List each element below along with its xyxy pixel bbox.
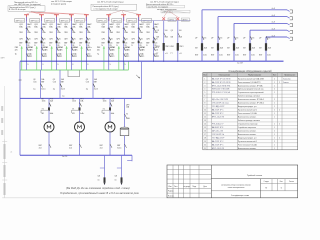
svg-text:ПВ1: ПВ1 [49,32,53,34]
svg-text:d25: d25 [30,49,33,51]
svg-text:9: 9 [204,106,205,108]
svg-text:С25: С25 [27,38,30,40]
svg-text:С16: С16 [33,81,36,83]
svg-text:20: 20 [204,144,206,146]
svg-text:2с: 2с [11,152,13,154]
svg-text:КМ1: КМ1 [156,46,160,48]
svg-text:40А: 40А [268,46,272,49]
svg-text:5х10: 5х10 [251,54,255,56]
svg-text:N: N [131,45,133,47]
svg-text:1: 1 [274,127,275,129]
svg-text:14: 14 [204,124,206,126]
svg-text:нВРУ2: нВРУ2 [169,20,175,22]
svg-text:нов. ВУ 2-2 14-й секции (сущ.): нов. ВУ 2-2 14-й секции (сущ.) [97,1,124,4]
svg-text:С25: С25 [87,38,90,40]
svg-text:d25: d25 [112,49,115,51]
svg-text:нВРУ1-13: нВРУ1-13 [30,20,38,22]
svg-text:Кол: Кол [273,75,276,77]
svg-text:Тр.: Тр. [75,53,78,55]
svg-text:1: 1 [274,113,275,115]
svg-text:2: 2 [204,82,205,84]
svg-text:1016: 1016 [42,101,46,103]
svg-text:N: N [79,45,81,47]
svg-text:нВРУ1-13: нВРУ1-13 [15,20,23,22]
svg-text:В 13-й 14-й секции: В 13-й 14-й секции [9,8,25,11]
svg-text:ВРУ1-13-20 УХ: ВРУ1-13-20 УХ [212,117,225,119]
svg-text:Поз: Поз [203,75,206,77]
svg-text:С63: С63 [267,37,270,39]
svg-text:QF: QF [243,37,246,39]
svg-text:КМ: КМ [227,47,230,49]
svg-text:(Вв Мвб Дч 2Н-нн клеммная пере: (Вв Мвб Дч 2Н-нн клеммная передача след.… [66,186,130,190]
svg-text:18: 18 [204,137,206,139]
svg-text:40А: 40А [220,46,224,49]
svg-text:ПВ1: ПВ1 [79,32,83,34]
svg-text:1ш: 1ш [62,95,65,97]
svg-text:ВВГ: ВВГ [243,54,246,56]
svg-text:2: 2 [279,82,280,84]
svg-text:ВВГ: ВВГ [94,81,97,83]
svg-text:d25: d25 [15,49,18,51]
svg-text:Тр.: Тр. [45,53,48,55]
svg-text:С25: С25 [72,38,75,40]
svg-text:4х-8: 4х-8 [272,22,275,24]
svg-text:Выключатель автомат.: Выключатель автомат. [238,131,257,133]
svg-text:Выключатель автомат. 3Р 80А: Выключатель автомат. 3Р 80А [238,84,263,87]
svg-text:ВВГ: ВВГ [259,54,262,56]
svg-text:Выключатель автомат.: Выключатель автомат. [238,134,257,136]
svg-text:1: 1 [274,134,275,136]
svg-text:N: N [125,64,126,66]
svg-text:ВВГ: ВВГ [34,43,37,45]
svg-text:Выключатель автомат. 3Р 25А С: Выключатель автомат. 3Р 25А С [238,102,265,105]
svg-text:16А: 16А [27,31,31,34]
svg-text:1: 1 [274,117,275,119]
svg-text:2: 2 [274,110,275,112]
svg-text:Тр.: Тр. [30,53,33,55]
svg-text:4х-8: 4х-8 [272,8,275,10]
svg-text:1: 1 [274,144,275,146]
svg-text:16А: 16А [110,31,114,34]
svg-text:5х10: 5х10 [219,54,223,56]
svg-text:Ограничитель перенапряжений: Ограничитель перенапряжений [238,91,264,94]
svg-text:Изм: Изм [169,186,172,188]
svg-text:3: 3 [204,85,205,87]
svg-text:12: 12 [204,117,206,119]
svg-text:ВВГ: ВВГ [211,54,214,56]
svg-text:ЩРн-24з-1 36: ЩРн-24з-1 36 [212,131,223,133]
svg-text:1ш: 1ш [33,88,36,90]
svg-text:1: 1 [274,137,275,139]
svg-text:1ш 10: 1ш 10 [62,156,67,158]
svg-text:автоматика отбор и контроль от: автоматика отбор и контроль отказов [221,184,250,186]
svg-text:ВВГ: ВВГ [195,54,198,56]
svg-text:ПВ1: ПВ1 [116,32,120,34]
svg-text:Питающий кабель ВУ-2 (сущ.): Питающий кабель ВУ-2 (сущ.) [93,5,120,8]
svg-text:4х4: 4х4 [100,147,103,149]
svg-text:ВА 47-29 1Р С16 УХЛ3: ВА 47-29 1Р С16 УХЛ3 [212,77,230,80]
svg-text:QF: QF [211,37,214,39]
svg-text:ВА: ВА [157,36,160,39]
svg-text:Вводно-распредел. уст: Вводно-распредел. уст [238,137,257,139]
svg-text:2: 2 [279,137,280,139]
svg-text:4х-8: 4х-8 [272,15,275,17]
svg-text:Листов: Листов [289,181,294,183]
svg-text:Подп.: Подп. [192,186,197,188]
svg-text:Определения, произведенный нав: Определения, произведенный навес В н.б.д… [60,191,140,195]
svg-text:С63: С63 [251,37,254,39]
svg-text:QF: QF [259,37,262,39]
svg-text:17: 17 [204,134,206,136]
svg-text:С25: С25 [124,38,127,40]
svg-text:Ограничитель перенапр: Ограничитель перенапр [238,124,258,126]
svg-text:РЕ: РЕ [87,45,89,47]
svg-text:Дата: Дата [203,186,207,188]
svg-text:QS: QS [115,175,118,177]
svg-text:5х6: 5х6 [87,43,90,45]
svg-text:нВРУ1-13: нВРУ1-13 [60,20,68,22]
svg-text:С16: С16 [53,81,56,83]
svg-text:нВРУ1-13: нВРУ1-13 [45,20,53,22]
svg-text:2: 2 [274,131,275,133]
svg-text:х/5: х/5 [179,53,181,55]
svg-text:5х6: 5х6 [57,43,60,45]
svg-text:С25: С25 [154,38,157,40]
svg-text:1: 1 [274,106,275,108]
svg-text:d25: d25 [97,49,100,51]
svg-text:Лист: Лист [174,186,178,188]
svg-text:У2: У2 [126,113,128,115]
svg-text:2: 2 [279,124,280,126]
svg-text:QS: QS [98,175,101,177]
svg-text:11: 11 [204,113,206,115]
svg-text:Вводно-распредел. уст: Вводно-распредел. уст [238,106,257,108]
svg-text:5х10: 5х10 [203,54,207,56]
svg-text:КМ: КМ [259,47,262,49]
svg-text:ЭВН: ЭВН [126,118,130,120]
svg-text:ВА: ВА [171,36,174,39]
svg-text:N: N [42,64,43,66]
svg-text:ПВ1: ПВ1 [102,32,106,34]
svg-text:5: 5 [204,92,205,94]
svg-text:ВА 47-29 3Р С: ВА 47-29 3Р С [212,112,224,115]
svg-text:4кВт: 4кВт [111,113,115,115]
svg-text:QF2: QF2 [116,38,120,40]
svg-text:2: 2 [274,89,275,91]
svg-text:QF2: QF2 [146,38,150,40]
svg-text:1: 1 [274,82,275,84]
svg-text:16А: 16А [42,31,46,34]
svg-text:Примечание: Примечание [284,75,295,77]
svg-text:Реле тепловое 9,5-14А: Реле тепловое 9,5-14А [238,112,258,115]
svg-text:QF: QF [157,30,160,32]
svg-text:ВА 47-29 3Р С: ВА 47-29 3Р С [212,143,224,146]
svg-text:N: N [19,45,21,47]
svg-text:N: N [146,45,148,47]
svg-text:N: N [110,64,111,66]
svg-text:QF2: QF2 [34,38,38,40]
svg-text:С63: С63 [219,37,222,39]
svg-text:Выключатель автомат.: Выключатель автомат. [238,117,257,119]
svg-text:Кабели и провода силовые: Кабели и провода силовые [238,96,260,98]
svg-text:1: 1 [274,92,275,94]
svg-text:М1: М1 [103,113,106,115]
svg-text:ВВГ: ВВГ [227,54,230,56]
svg-text:N: N [57,64,58,66]
svg-text:ОПС1-В 3Р 2-й: ОПС1-В 3Р 2-й [212,133,224,136]
svg-text:80А: 80А [179,36,183,39]
svg-text:N: N [27,64,28,66]
svg-text:1ш: 1ш [86,88,89,90]
svg-text:16А: 16А [57,31,61,34]
svg-text:КМ: КМ [243,47,246,49]
svg-text:5х6: 5х6 [139,43,142,45]
svg-text:QF2: QF2 [49,38,53,40]
svg-text:Тр.: Тр. [127,53,130,55]
svg-text:М1: М1 [72,113,75,115]
svg-text:QF: QF [227,37,230,39]
svg-text:15: 15 [204,127,206,129]
svg-text:4кВт: 4кВт [80,113,84,115]
svg-text:Стадия: Стадия [264,181,269,183]
svg-text:нВРУ1-13: нВРУ1-13 [98,20,106,22]
svg-text:N: N [116,45,118,47]
svg-text:40А: 40А [204,46,208,49]
svg-text:QF2: QF2 [79,38,83,40]
svg-text:ВРУ1-13-20 УХ: ВРУ1-13-20 УХ [212,148,225,150]
svg-text:4х-8: 4х-8 [272,29,275,31]
svg-text:6: 6 [281,187,282,189]
svg-text:Тр.: Тр. [97,53,100,55]
svg-text:Пускатель магнитный 10А 220В: Пускатель магнитный 10А 220В [238,77,265,80]
svg-text:С25: С25 [42,38,45,40]
svg-text:ВВГ: ВВГ [102,43,105,45]
svg-text:ПВ1: ПВ1 [146,32,150,34]
svg-text:1: 1 [274,85,275,87]
svg-text:ВА 47-29 1Р С: ВА 47-29 1Р С [212,109,224,112]
svg-text:Кабели и провода силовые: Кабели и провода силовые [238,120,260,122]
svg-text:2: 2 [274,99,275,101]
svg-text:5х6: 5х6 [110,43,113,45]
svg-text:Выключатель автомат.: Выключатель автомат. [238,148,257,150]
svg-text:М1: М1 [42,113,45,115]
svg-text:QF: QF [171,30,174,32]
svg-text:УЗО ВД1-63 2Р: УЗО ВД1-63 2Р [212,106,225,108]
svg-text:нВРУ1-13: нВРУ1-13 [112,20,120,22]
svg-text:Лист: Лист [280,181,284,183]
svg-text:Щиток распределительный нав.: Щиток распределительный нав. [238,88,264,91]
svg-text:ПМЛ-1100 О*4Б 220В: ПМЛ-1100 О*4Б 220В [212,89,230,91]
svg-text:N: N [64,45,66,47]
svg-text:2: 2 [274,141,275,143]
svg-text:схема электрическая: схема электрическая [228,187,245,189]
svg-text:1: 1 [274,124,275,126]
svg-text:80А: 80А [165,36,169,39]
svg-text:РТЛ-1016-2 О*4 10,5А: РТЛ-1016-2 О*4 10,5А [212,91,231,94]
svg-text:4х4: 4х4 [39,147,42,149]
svg-text:4х-8: 4х-8 [272,35,275,37]
svg-text:ВВГ: ВВГ [131,43,134,45]
svg-text:QF2: QF2 [19,38,23,40]
svg-text:19: 19 [204,141,206,143]
svg-text:6: 6 [204,96,205,98]
svg-text:ПВ1: ПВ1 [64,32,68,34]
svg-text:С63: С63 [235,37,238,39]
svg-text:КМ: КМ [211,47,214,49]
svg-text:1ВРУ: 1ВРУ [1,58,6,60]
svg-text:40А: 40А [252,46,256,49]
svg-text:ПВ1: ПВ1 [131,32,135,34]
svg-text:40А: 40А [236,46,240,49]
svg-text:ВВГ: ВВГ [116,43,119,45]
svg-text:3х2,5: 3х2,5 [117,147,121,149]
svg-text:5х6: 5х6 [27,43,30,45]
svg-text:1ш 107: 1ш 107 [237,62,243,64]
svg-text:С63: С63 [203,37,206,39]
svg-text:3х2,5: 3х2,5 [41,88,45,90]
svg-text:ВА 47-29 1Р С: ВА 47-29 1Р С [212,140,224,143]
svg-text:N: N [102,45,104,47]
svg-text:5х10: 5х10 [267,54,271,56]
svg-text:4: 4 [204,89,205,91]
svg-text:Пг: Пг [265,187,267,189]
svg-text:ПВ1: ПВ1 [34,32,38,34]
svg-text:тех. НВ 13-й сек. (в подвале): тех. НВ 13-й сек. (в подвале) [14,3,41,6]
svg-text:ПМЛ: ПМЛ [165,46,170,48]
svg-text:QF2: QF2 [131,38,135,40]
svg-text:ВВГ: ВВГ [19,43,22,45]
svg-text:ЩРн-24з-1 36 УХЛ3: ЩРн-24з-1 36 УХЛ3 [212,99,228,101]
svg-text:16А: 16А [87,31,91,34]
svg-text:N: N [72,64,73,66]
svg-text:нВРУ2: нВРУ2 [182,20,188,22]
svg-text:1: 1 [204,78,205,80]
svg-text:ВВГ: ВВГ [64,43,67,45]
svg-text:Спецификация схема: Спецификация схема [231,194,249,197]
svg-text:ВВГ: ВВГ [41,81,44,83]
svg-text:С25: С25 [110,38,113,40]
svg-text:d25: d25 [75,49,78,51]
svg-text:С25: С25 [139,38,142,40]
svg-text:Пускатель магнитный 1: Пускатель магнитный 1 [238,140,257,143]
svg-text:5х6: 5х6 [42,43,45,45]
svg-text:d25: d25 [45,49,48,51]
svg-text:5х6: 5х6 [154,43,157,45]
svg-text:Реле тепловое 9,5-14А РТЛ: Реле тепловое 9,5-14А РТЛ [238,81,260,84]
svg-text:N: N [34,45,36,47]
svg-text:КМ: КМ [195,47,198,49]
svg-text:Замена: Замена [283,82,289,84]
svg-text:Обозначение: Обозначение [218,75,230,77]
svg-text:d25: d25 [60,49,63,51]
svg-text:ВВГ: ВВГ [49,43,52,45]
svg-text:100: 100 [179,30,182,32]
svg-text:нВРУ1-13: нВРУ1-13 [75,20,83,22]
svg-text:QF2: QF2 [64,38,68,40]
svg-text:5х6: 5х6 [124,43,127,45]
svg-text:нВРУ1-13: нВРУ1-13 [127,20,135,22]
svg-text:5х10: 5х10 [235,54,239,56]
svg-text:ВРУ1-13-20 УХЛ4 IP31: ВРУ1-13-20 УХЛ4 IP31 [212,85,230,87]
svg-text:ВА 47-29 3Р С25 УХЛ3: ВА 47-29 3Р С25 УХЛ3 [212,81,230,84]
svg-text:N: N [87,64,88,66]
svg-text:d25: d25 [142,49,145,51]
svg-text:Реле тепловое 9,5-14А: Реле тепловое 9,5-14А [238,143,258,146]
svg-text:4х4: 4х4 [69,147,72,149]
svg-text:d25: d25 [127,49,130,51]
svg-text:ВА 88-32 3Р 8: ВА 88-32 3Р 8 [212,126,223,129]
svg-text:Тр.: Тр. [15,53,18,55]
svg-text:Разраб.: Разраб. [168,191,174,193]
svg-text:5х6: 5х6 [72,43,75,45]
svg-text:1б: 1б [98,180,100,182]
svg-text:ТТ: ТТ [170,53,173,55]
svg-text:С25: С25 [57,38,60,40]
svg-text:ПМЛ: ПМЛ [179,46,184,48]
svg-text:Выключатель автомат. 1Р 16А С: Выключатель автомат. 1Р 16А С [238,98,265,101]
svg-text:1: 1 [274,148,275,150]
svg-text:16А: 16А [72,31,76,34]
svg-text:2: 2 [279,110,280,112]
svg-text:Заказ изм.: Заказ изм. [283,78,291,80]
svg-text:1б: 1б [115,180,117,182]
svg-text:2: 2 [274,78,275,80]
svg-text:КМ1: КМ1 [170,46,174,48]
svg-text:4кВт: 4кВт [50,113,54,115]
svg-text:ОПС1-В 3Р 2-й класс: ОПС1-В 3Р 2-й класс [212,102,229,105]
svg-text:(в подвале дома): (в подвале дома) [51,3,67,5]
svg-text:1: 1 [274,103,275,105]
svg-text:Н.контр.: Н.контр. [168,195,175,197]
svg-text:N: N [49,45,51,47]
svg-text:ВВГ: ВВГ [146,43,149,45]
svg-text:С16: С16 [86,81,89,83]
svg-text:7: 7 [204,99,205,101]
svg-text:ПВ1: ПВ1 [19,32,23,34]
svg-text:21: 21 [204,148,206,150]
svg-text:ВВГ: ВВГ [79,43,82,45]
svg-text:Наименование: Наименование [248,75,261,77]
svg-text:1016: 1016 [103,101,107,103]
svg-text:Тройной схема: Тройной схема [247,174,263,177]
svg-text:1016: 1016 [72,101,76,103]
svg-text:Устройство защитного: Устройство защитного [238,126,256,129]
svg-text:3х2,5: 3х2,5 [61,88,65,90]
svg-text:100: 100 [165,30,168,32]
svg-text:16: 16 [204,131,206,133]
svg-text:8: 8 [204,103,205,105]
svg-text:10: 10 [204,110,206,112]
svg-text:3х2,5: 3х2,5 [94,88,98,90]
svg-text:ВВГ: ВВГ [61,81,64,83]
svg-text:16А: 16А [139,31,143,34]
svg-text:QF: QF [195,37,198,39]
svg-text:х/5: х/5 [165,53,167,55]
svg-text:УЗО ВД1-63 2Р: УЗО ВД1-63 2Р [212,137,225,139]
svg-text:16А: 16А [124,31,128,34]
svg-text:QF2: QF2 [102,38,106,40]
svg-text:13: 13 [204,120,206,122]
svg-text:1ш: 1ш [53,88,56,90]
svg-text:Пускатель магнитный 1: Пускатель магнитный 1 [238,109,257,112]
svg-text:в тех.подполье 14-й секции: в тех.подполье 14-й секции [94,7,118,10]
svg-text:РТЛ-1016-2 О*: РТЛ-1016-2 О* [212,124,224,126]
